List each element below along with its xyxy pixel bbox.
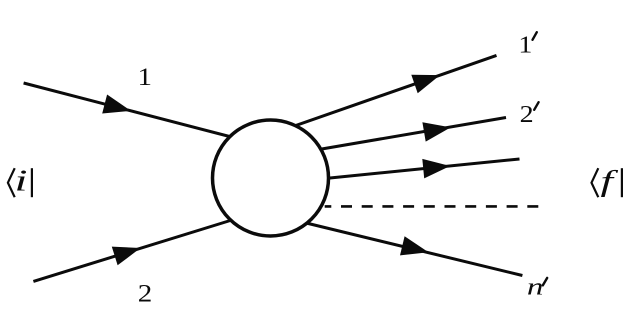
arrowhead on line 1 — [102, 95, 131, 114]
arrowhead on line 2' — [422, 122, 450, 141]
wire incoming line 2 — [33, 218, 240, 282]
prime of n' — [543, 278, 547, 286]
wire outgoing line 3 — [315, 159, 520, 180]
bra f : left angle bracket — [592, 168, 599, 197]
svg-text:2: 2 — [138, 281, 153, 308]
bra i : vertical bar — [31, 168, 33, 197]
svg-text:n: n — [527, 275, 544, 301]
prime of 2' — [534, 102, 538, 110]
svg-text:1: 1 — [138, 64, 153, 91]
bra i : left angle bracket — [8, 168, 15, 197]
svg-text:i: i — [15, 163, 28, 198]
wire incoming line 1 — [24, 83, 245, 141]
svg-text:1: 1 — [518, 32, 532, 58]
wire outgoing line n' — [300, 222, 522, 276]
arrowhead on line n' — [400, 236, 429, 255]
dashed line — [325, 205, 539, 208]
arrowhead on line 3 — [422, 159, 450, 179]
svg-text:2: 2 — [520, 102, 534, 128]
arrowhead on line 1' — [411, 75, 440, 94]
wire outgoing line 1' — [290, 55, 497, 127]
interaction blob circle — [213, 120, 329, 236]
bra f : vertical bar — [621, 168, 623, 197]
prime of 1' — [533, 32, 537, 40]
wire outgoing line 2' — [310, 118, 506, 152]
arrowhead on line 2 — [112, 247, 141, 266]
